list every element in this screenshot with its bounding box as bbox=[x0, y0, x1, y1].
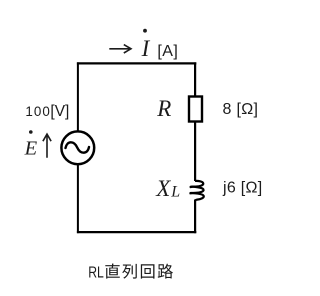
voltage arrow up bbox=[43, 134, 51, 158]
wire top bbox=[77, 62, 196, 64]
caption kanji 路 bbox=[158, 264, 173, 279]
svg-text:E: E bbox=[24, 137, 38, 159]
caption kanji 列 bbox=[122, 264, 137, 279]
wire left bbox=[77, 62, 79, 131]
svg-text:j6 [Ω]: j6 [Ω] bbox=[222, 179, 263, 196]
inductor XL coil bbox=[190, 181, 203, 201]
svg-text:RL: RL bbox=[88, 264, 104, 281]
caption kanji 回 bbox=[141, 264, 155, 278]
svg-text:100: 100 bbox=[25, 104, 51, 119]
voltage phasor dot bbox=[29, 130, 33, 134]
svg-text:8 [Ω]: 8 [Ω] bbox=[223, 101, 259, 118]
resistor R body bbox=[189, 97, 202, 122]
svg-text:I: I bbox=[141, 36, 151, 61]
svg-text:R: R bbox=[156, 96, 171, 121]
svg-text:L: L bbox=[170, 183, 180, 200]
svg-text:X: X bbox=[155, 176, 171, 201]
wire right lower bbox=[194, 200, 196, 234]
current arrow bbox=[109, 45, 131, 53]
AC source E circle bbox=[61, 131, 94, 164]
svg-text:[V]: [V] bbox=[50, 103, 69, 120]
wire bottom bbox=[77, 231, 196, 233]
caption kanji 直 bbox=[105, 264, 119, 279]
wire left lower bbox=[77, 164, 79, 233]
AC source sine symbol bbox=[66, 142, 90, 152]
wire right upper bbox=[194, 62, 196, 96]
current phasor dot bbox=[143, 29, 147, 33]
wire right middle bbox=[194, 122, 196, 182]
svg-text:[A]: [A] bbox=[157, 43, 178, 60]
